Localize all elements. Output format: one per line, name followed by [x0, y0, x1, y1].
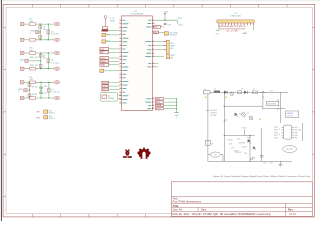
wire pad to R3a	[24, 81, 29, 83]
svg-text:220uF: 220uF	[242, 146, 248, 148]
svg-text:MOTOR+: MOTOR+	[286, 149, 293, 151]
transistor Q11	[242, 113, 246, 117]
wire top rail	[36, 81, 55, 83]
svg-text:XOUT: XOUT	[156, 109, 162, 111]
svg-text:C_(0.1u): C_(0.1u)	[52, 92, 60, 94]
power mid horizontal	[224, 105, 263, 107]
pad P2B oval	[54, 67, 60, 70]
svg-text:VCub 12v: VCub LTdP QF /8 smal: VCub 12v: VCub LTdP QF /8 smaller IPA/Ba…	[172, 213, 272, 216]
svg-text:100n: 100n	[178, 25, 182, 27]
svg-text:EN_A: EN_A	[103, 82, 109, 85]
connector X1 body	[217, 20, 255, 23]
svg-text:SDA: SDA	[101, 64, 106, 67]
wire branch A	[28, 82, 30, 98]
svg-text:40V 5A: 40V 5A	[210, 114, 217, 117]
wire L1 to IC	[109, 29, 120, 31]
bits on rail	[260, 91, 266, 93]
power mid vertical	[223, 92, 225, 161]
junction dots A	[40, 23, 41, 24]
title block col lines	[197, 207, 199, 211]
capacitor C3c plates upper	[40, 82, 42, 87]
svg-text:D3: D3	[239, 114, 241, 116]
pad GND3	[24, 89, 27, 92]
svg-text:EN_B: EN_B	[103, 86, 109, 88]
resistor R3d	[28, 94, 31, 97]
pad IN3A	[20, 81, 24, 84]
svg-text:TP1: TP1	[263, 163, 266, 165]
logo gear icon	[138, 148, 151, 159]
transistor Q12	[249, 116, 253, 120]
wire pad to R1a	[24, 23, 29, 25]
svg-text:CONN_01X12: CONN_01X12	[230, 15, 242, 17]
fuse F1	[204, 91, 211, 94]
power vertical 4 right	[261, 128, 263, 161]
wire pad to R2a	[24, 52, 29, 54]
svg-text:MTDO: MTDO	[49, 113, 55, 115]
orange dots	[225, 97, 226, 98]
pad GND1	[36, 30, 39, 33]
net flag EN_A	[102, 81, 109, 84]
capacitor C1a	[47, 30, 50, 34]
wire branch B	[47, 24, 49, 40]
U1 left pin stubs	[119, 19, 121, 21]
svg-text:C18: C18	[237, 138, 240, 140]
pad P3A oval	[54, 81, 60, 84]
svg-text:12MHz: 12MHz	[108, 98, 114, 100]
wire branch B	[47, 53, 49, 69]
diode D2	[224, 91, 228, 95]
wire bottom rail	[36, 68, 55, 70]
svg-text:Size: A4: Size: A4	[173, 209, 183, 212]
svg-text:JP4(1,2): JP4(1,2)	[169, 35, 177, 37]
U1 right pin names	[148, 19, 151, 21]
jumper CN_SWD	[164, 32, 168, 35]
pad P2A oval	[54, 51, 60, 54]
svg-text:D1: D1	[214, 89, 216, 91]
resistor R3c	[28, 84, 31, 87]
connector SV1 wires	[154, 41, 163, 43]
wire branch A	[40, 53, 42, 69]
pad IN1B	[20, 38, 24, 41]
svg-text:100uF: 100uF	[228, 140, 234, 142]
X1 left pin wire	[218, 25, 220, 30]
jumper SJ3	[100, 69, 104, 72]
battery ellipse	[210, 152, 220, 157]
svg-text:Rev:: Rev:	[288, 209, 294, 212]
svg-text:F1: F1	[204, 89, 206, 91]
ferrite bead L1	[102, 27, 107, 30]
J2 right vertical	[302, 123, 304, 141]
svg-text:C_(0.1u): C_(0.1u)	[51, 33, 59, 35]
wire bottom rail	[36, 39, 55, 41]
component small right	[253, 91, 258, 94]
resistor R2c	[39, 55, 42, 58]
svg-text:RXD0: RXD0	[101, 58, 107, 60]
wire gnd down	[176, 99, 178, 113]
svg-text:+ 5V: + 5V	[214, 33, 219, 35]
frame column ticks top	[31, 4, 33, 7]
wire mid stub	[39, 31, 40, 33]
wire top rail	[36, 23, 55, 25]
wire mid stub	[28, 60, 41, 62]
svg-text:Figure 30: Typical limit/use R: Figure 30: Typical limit/use Region (Bri…	[213, 175, 311, 178]
title block outline	[171, 182, 312, 217]
battery box	[206, 140, 211, 145]
svg-text:SW: SW	[154, 32, 157, 34]
svg-text:SCL 12: SCL 12	[236, 152, 242, 154]
X1 right pin wire	[253, 25, 255, 30]
supply +5V circle	[104, 16, 107, 19]
resistor R1a	[29, 23, 35, 26]
motor ellipse	[283, 146, 297, 153]
wire top rail	[36, 52, 55, 54]
resistor R3b	[29, 97, 35, 100]
frame column ticks bottom	[31, 214, 33, 217]
wire pad to R1b	[24, 39, 29, 41]
diode D1 block	[214, 91, 220, 93]
crystal circuit box	[100, 92, 118, 101]
resistor R3a	[29, 81, 35, 84]
pad GND2	[25, 59, 28, 62]
svg-text:R8 1k: R8 1k	[32, 94, 37, 96]
svg-text:D5: D5	[241, 89, 243, 91]
net flag EN_B	[102, 85, 109, 88]
capacitor C2a	[47, 59, 50, 63]
net flag EN_C	[102, 88, 109, 91]
net flag SWD	[154, 31, 159, 34]
svg-text:a: a	[279, 129, 280, 131]
power h line right	[263, 108, 286, 110]
ground symbol	[174, 112, 178, 114]
transistor Q10	[230, 92, 234, 96]
jumper SJ1	[102, 33, 106, 36]
J2 right stubs	[292, 126, 295, 128]
svg-text:BT: BT	[211, 143, 213, 145]
svg-text:R7 1k: R7 1k	[32, 86, 37, 88]
resistor R2b	[29, 67, 35, 70]
power bottom rail	[208, 160, 292, 162]
pad P3B oval	[54, 96, 60, 99]
pad IN3B	[20, 96, 24, 99]
svg-text:1N4148: 1N4148	[239, 143, 245, 145]
svg-text:GNDA: GNDA	[156, 104, 162, 107]
battery plus tick	[206, 110, 209, 112]
connector J2 body	[284, 125, 292, 139]
net flag RST	[100, 48, 109, 51]
diode diag D6	[247, 140, 251, 144]
box ON OFF	[286, 111, 299, 118]
svg-text:C19: C19	[231, 147, 234, 149]
svg-text:100R: 100R	[110, 21, 115, 23]
svg-text:Q2: Q2	[247, 113, 249, 115]
crystal Q1	[102, 95, 107, 99]
capacitor C3a	[48, 88, 51, 92]
svg-text:GND: GND	[242, 33, 247, 35]
net flag RST right	[154, 26, 161, 29]
wire to CN_SWD	[159, 31, 165, 33]
component D5 on rail	[238, 91, 242, 94]
svg-text:Title:: Title:	[173, 204, 179, 208]
svg-text:ENC_1A: ENC_1A	[30, 56, 38, 59]
svg-text:+3V3: +3V3	[163, 12, 169, 14]
U1 right pin numbers	[153, 18, 154, 20]
svg-text:Q7: Q7	[253, 89, 255, 91]
U1 left pin numbers	[120, 18, 121, 20]
power gnd symbol	[279, 161, 281, 164]
resistor R1b	[29, 39, 35, 42]
svg-text:C_(0.1u): C_(0.1u)	[51, 62, 59, 64]
svg-text:ENC_1B: ENC_1B	[30, 65, 38, 67]
U2 vertical wires	[262, 92, 264, 109]
junction dots A	[29, 82, 30, 83]
svg-text:Vout: Vout	[247, 136, 251, 139]
U1 left pin names	[122, 19, 125, 21]
svg-text:PW5: PW5	[274, 138, 278, 140]
svg-text:b: b	[279, 134, 280, 136]
resistor R2a	[29, 52, 35, 55]
net flag ISP	[100, 51, 109, 54]
junction dots A	[40, 52, 41, 53]
wire pad to R3b	[24, 97, 29, 99]
IC U1 LPC1114 body	[121, 16, 152, 111]
diode diag D7	[253, 147, 257, 151]
wires right mid	[154, 63, 158, 65]
connector X1 pin stubs	[218, 23, 220, 25]
net flag RXD0	[100, 57, 109, 60]
svg-text:1A 1/1: 1A 1/1	[289, 213, 296, 216]
power left vertical	[207, 92, 209, 152]
svg-text:LPC1114FBD48: LPC1114FBD48	[131, 14, 144, 16]
logo beaver icon	[123, 156, 127, 158]
svg-text:Proj: TINAH_Beaversource: Proj: TINAH_Beaversource	[173, 201, 202, 204]
wire mid stub	[27, 89, 29, 91]
jumper INT	[154, 56, 164, 58]
wire branch A	[39, 24, 41, 40]
wire crystal pins	[118, 94, 122, 96]
svg-text:M5: M5	[295, 138, 297, 140]
connector SV1 body	[166, 40, 169, 53]
pad P1B oval	[54, 38, 60, 41]
svg-text:TDI CLK DAT: TDI CLK DAT	[226, 29, 239, 32]
resistor R1d	[39, 36, 42, 39]
pad IN2A	[20, 51, 24, 54]
wire pad to R2b	[24, 68, 29, 70]
frame row ticks right	[312, 26, 314, 28]
page top edge shade	[0, 0, 320, 2]
svg-text:TXD0: TXD0	[101, 61, 107, 63]
jumper SJ2	[102, 40, 106, 43]
svg-text:33uH: 33uH	[242, 128, 247, 130]
pad P1A oval	[54, 23, 60, 26]
inductor L2 vertical	[244, 129, 246, 135]
diode diag D3	[234, 113, 238, 117]
wire branch B	[48, 82, 50, 98]
cap on vertical	[260, 154, 264, 156]
frame row ticks left	[3, 26, 6, 28]
resistor R1c	[39, 26, 42, 29]
svg-text:EN_C: EN_C	[103, 89, 109, 91]
resistor R2d	[39, 65, 42, 68]
power vertical x250	[249, 135, 251, 161]
U1 right pin stubs	[152, 19, 154, 21]
page edge line	[0, 0, 2, 221]
power mid horizontal 2	[224, 134, 254, 136]
svg-text:LM2596S: LM2596S	[267, 104, 276, 106]
wire rst row	[161, 26, 165, 28]
wire bottom rail	[36, 97, 55, 99]
svg-text:GND: GND	[156, 99, 161, 101]
regulator U2 LM2596S	[267, 101, 279, 105]
net flags bottom right of U1	[155, 98, 163, 100]
net flag SDA	[100, 63, 109, 66]
battery right wire	[221, 154, 224, 156]
svg-text:Date:: Date:	[201, 209, 207, 212]
svg-text:OUT 5V: OUT 5V	[287, 115, 294, 117]
capacitor C3d plates lower	[40, 90, 42, 92]
title block row lines	[171, 195, 312, 197]
pad IN2B	[20, 67, 24, 70]
net flag TXD0	[100, 60, 109, 63]
pad IN1A	[20, 23, 24, 26]
power top rail	[203, 91, 288, 93]
wire 3v3 net	[164, 15, 166, 20]
capacitor C13	[164, 22, 167, 24]
svg-text:TP2: TP2	[270, 163, 273, 165]
svg-text:MTDO: MTDO	[49, 118, 55, 120]
